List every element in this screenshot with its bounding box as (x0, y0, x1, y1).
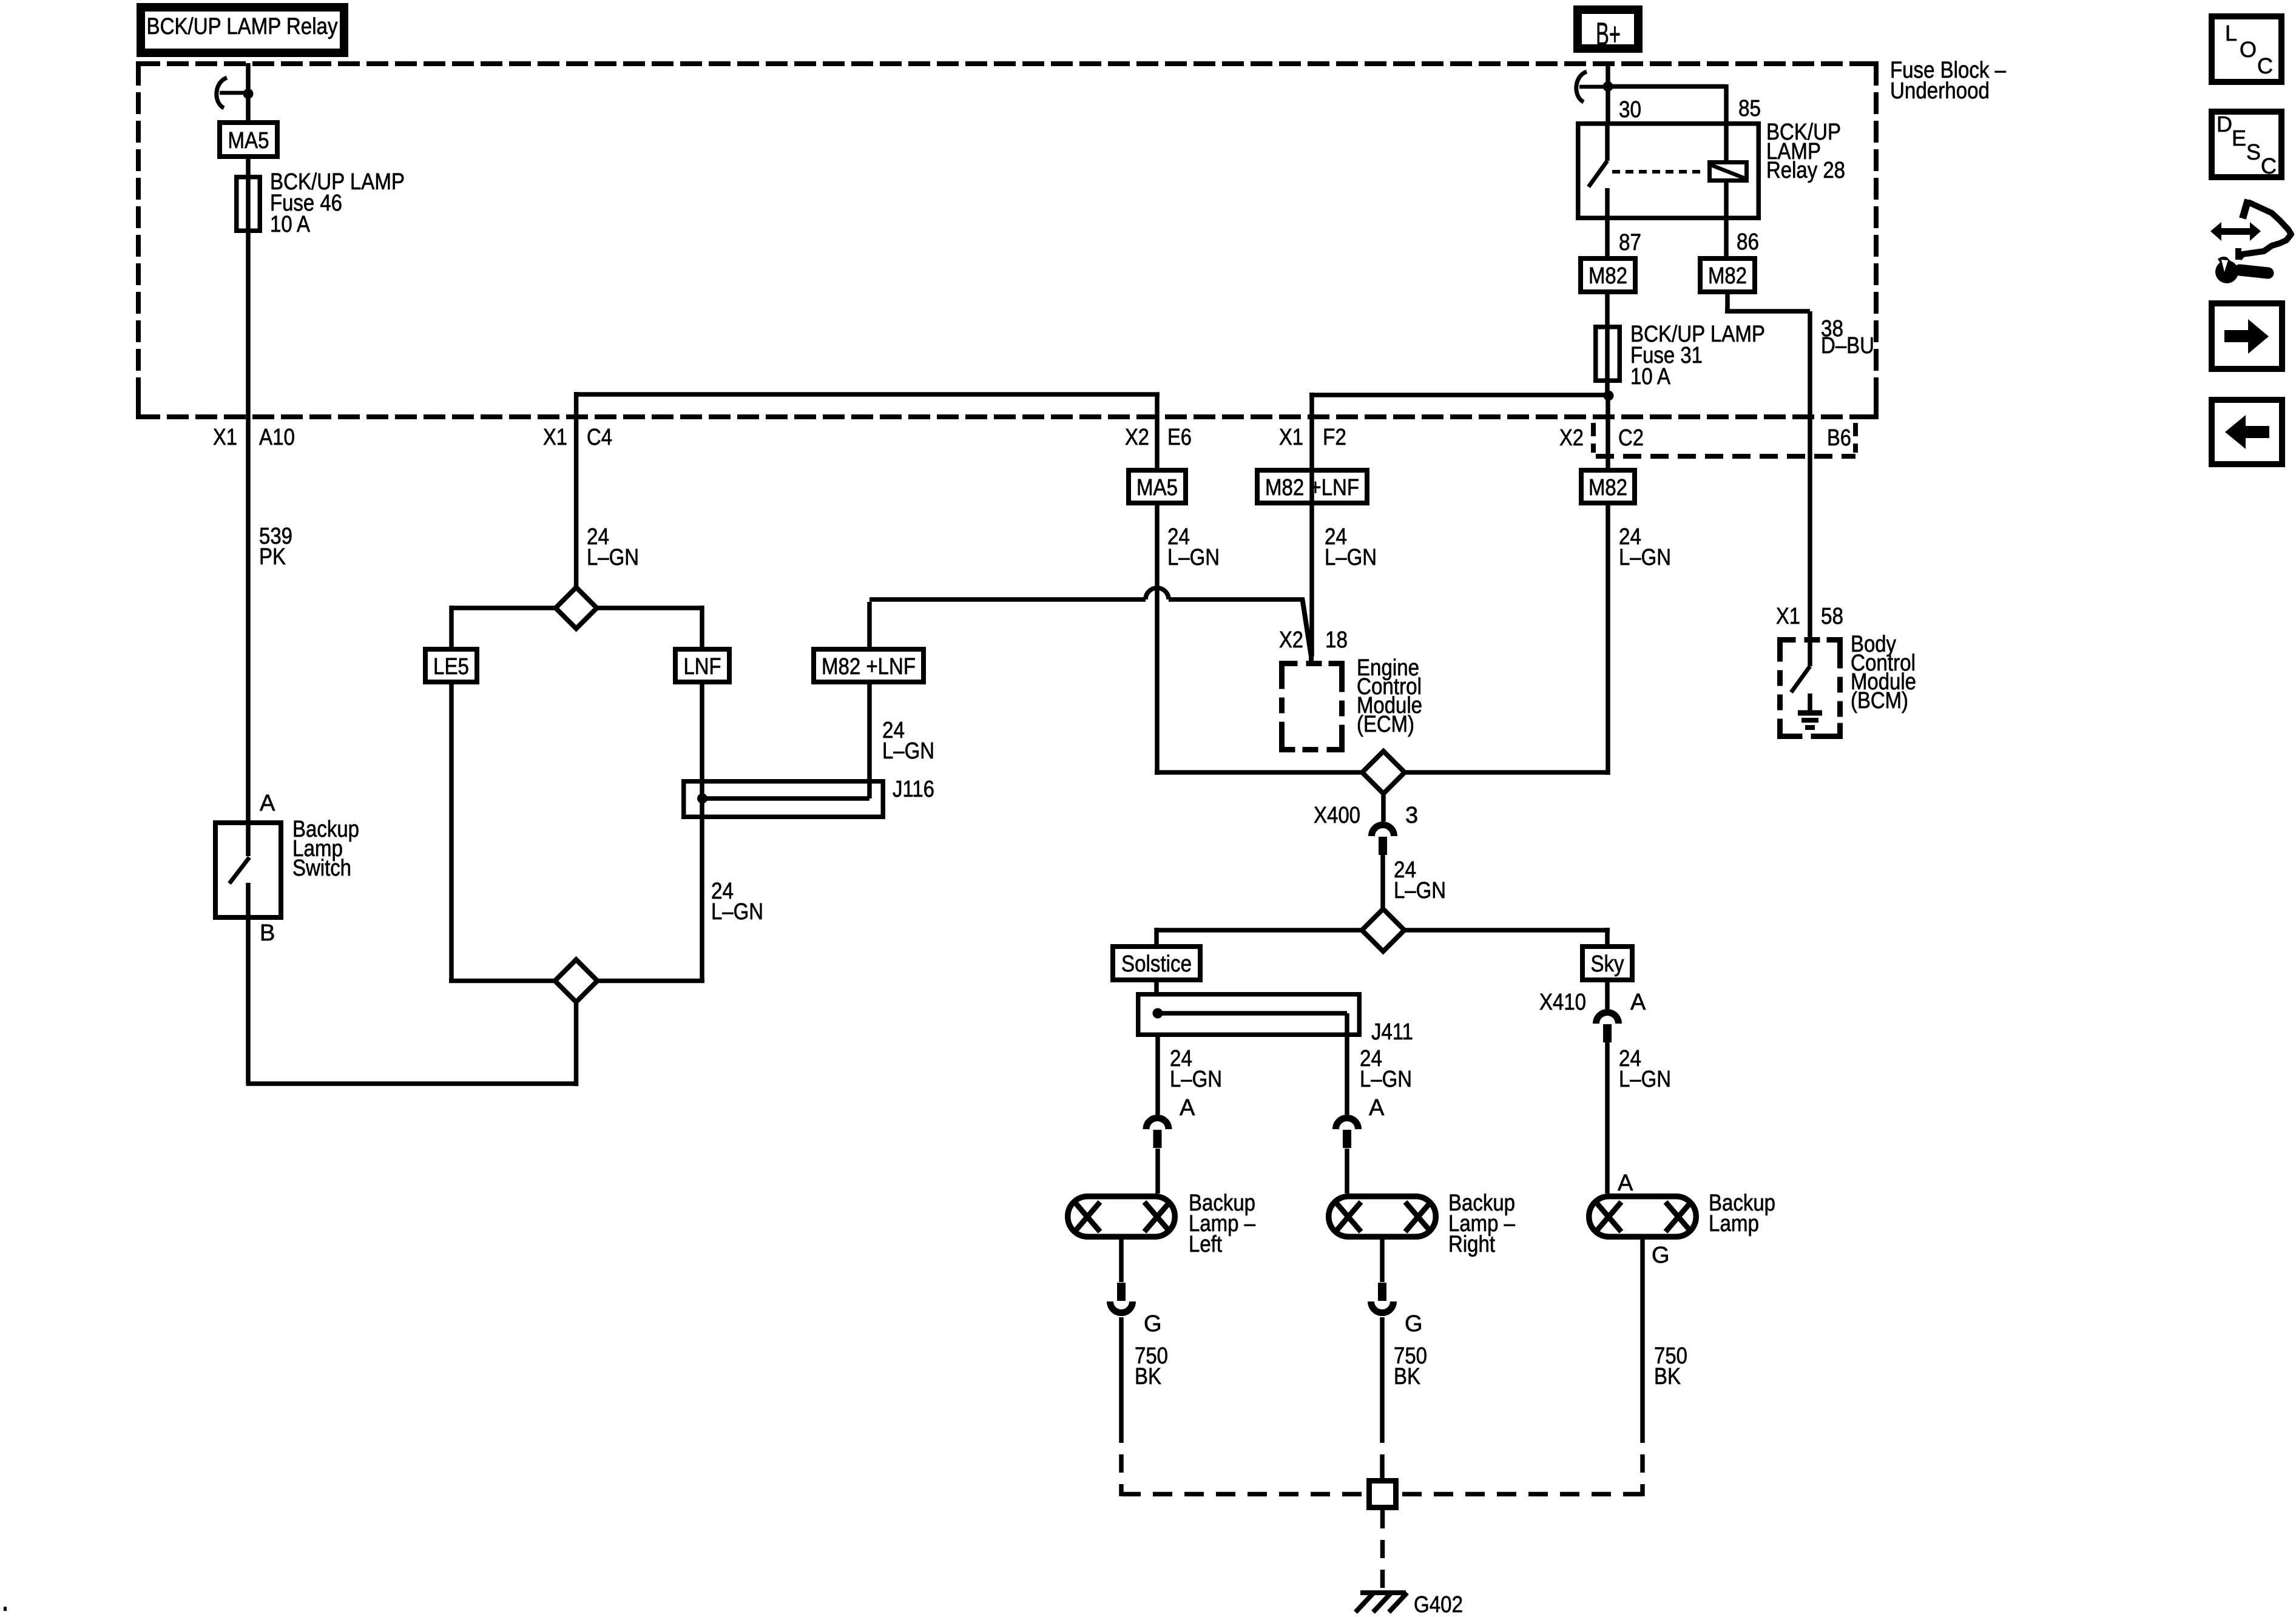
svg-text:Right: Right (1448, 1232, 1495, 1257)
svg-text:A: A (1630, 990, 1646, 1015)
svg-text:86: 86 (1737, 229, 1759, 255)
svg-text:87: 87 (1619, 230, 1641, 255)
svg-text:E6: E6 (1167, 425, 1192, 450)
svg-text:A10: A10 (259, 425, 295, 450)
svg-text:10 A: 10 A (270, 212, 311, 237)
svg-text:18: 18 (1325, 627, 1348, 653)
svg-text:A: A (1369, 1095, 1385, 1121)
svg-text:BK: BK (1394, 1364, 1420, 1389)
svg-text:L–GN: L–GN (1325, 545, 1377, 570)
svg-text:X410: X410 (1539, 990, 1586, 1015)
svg-text:M82: M82 (1708, 263, 1747, 289)
svg-text:10 A: 10 A (1630, 364, 1671, 390)
svg-text:A: A (1180, 1095, 1195, 1121)
svg-text:X400: X400 (1314, 803, 1360, 828)
svg-text:X1: X1 (1776, 604, 1800, 629)
svg-text:G: G (1652, 1243, 1670, 1268)
svg-text:S: S (2246, 140, 2261, 164)
svg-text:Solstice: Solstice (1121, 951, 1192, 977)
svg-text:X2: X2 (1279, 627, 1303, 653)
svg-text:B+: B+ (1596, 16, 1621, 52)
svg-text:J411: J411 (1371, 1019, 1413, 1045)
svg-text:BK: BK (1654, 1364, 1681, 1389)
svg-text:MA5: MA5 (228, 128, 269, 154)
svg-text:X2: X2 (1125, 425, 1149, 450)
svg-text:PK: PK (259, 544, 286, 570)
svg-text:Sky: Sky (1591, 951, 1624, 977)
svg-text:LNF: LNF (684, 654, 721, 680)
svg-text:G: G (1405, 1311, 1423, 1337)
svg-text:3: 3 (1405, 803, 1418, 828)
svg-text:D: D (2217, 112, 2232, 137)
svg-text:G: G (1144, 1311, 1162, 1337)
svg-text:L–GN: L–GN (1167, 545, 1220, 570)
svg-text:D–BU: D–BU (1821, 333, 1874, 359)
svg-text:B6: B6 (1827, 425, 1851, 451)
svg-text:(BCM): (BCM) (1851, 688, 1908, 714)
svg-text:58: 58 (1821, 604, 1843, 629)
svg-text:L–GN: L–GN (1619, 545, 1671, 570)
svg-text:LE5: LE5 (433, 654, 469, 680)
svg-text:L–GN: L–GN (1170, 1067, 1222, 1092)
svg-text:O: O (2240, 37, 2257, 62)
svg-text:M82 +LNF: M82 +LNF (822, 654, 916, 680)
svg-text:L–GN: L–GN (711, 899, 763, 925)
svg-text:C4: C4 (587, 425, 612, 450)
svg-text:A: A (1618, 1170, 1633, 1196)
svg-text:X1: X1 (543, 425, 567, 450)
svg-text:A: A (260, 791, 275, 816)
svg-text:L–GN: L–GN (1360, 1067, 1412, 1092)
svg-text:F2: F2 (1323, 425, 1346, 450)
svg-text:J116: J116 (893, 777, 934, 802)
svg-text:C: C (2257, 53, 2273, 78)
svg-text:Relay 28: Relay 28 (1766, 158, 1845, 183)
svg-text:(ECM): (ECM) (1357, 712, 1414, 737)
svg-text:L–GN: L–GN (1394, 878, 1446, 903)
svg-text:G402: G402 (1414, 1592, 1463, 1617)
svg-text:C: C (2261, 154, 2277, 178)
svg-text:Underhood: Underhood (1890, 78, 1990, 104)
svg-text:85: 85 (1738, 96, 1761, 121)
svg-text:BCK/UP LAMP Relay: BCK/UP LAMP Relay (147, 14, 338, 39)
svg-text:L–GN: L–GN (587, 545, 639, 570)
svg-text:E: E (2232, 126, 2246, 150)
svg-text:Left: Left (1189, 1232, 1222, 1257)
svg-text:L–GN: L–GN (1619, 1067, 1671, 1092)
svg-text:C2: C2 (1618, 425, 1644, 451)
svg-text:X1: X1 (1279, 425, 1303, 450)
svg-text:X1: X1 (213, 425, 237, 450)
svg-text:Lamp: Lamp (1709, 1211, 1759, 1237)
svg-text:BK: BK (1135, 1364, 1161, 1389)
svg-text:MA5: MA5 (1136, 475, 1178, 501)
svg-text:M82: M82 (1589, 263, 1627, 289)
svg-text:M82: M82 (1589, 475, 1627, 501)
svg-text:Switch: Switch (292, 856, 351, 881)
svg-text:M82 +LNF: M82 +LNF (1265, 475, 1359, 501)
svg-text:30: 30 (1619, 97, 1641, 123)
svg-text:X2: X2 (1559, 425, 1584, 451)
svg-text:B: B (260, 920, 275, 946)
svg-text:L: L (2225, 21, 2237, 46)
svg-text:L–GN: L–GN (882, 738, 934, 764)
